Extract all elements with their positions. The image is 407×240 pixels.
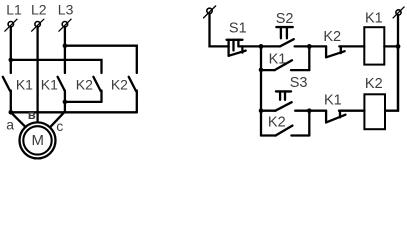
push button S1 (NC stop) [227,40,246,56]
node right rail dot [396,44,401,49]
terminal control left [204,6,216,18]
svg-text:K2: K2 [323,29,341,45]
svg-text:L2: L2 [31,2,47,18]
contact K1 pole 2 [58,77,65,112]
contact K2 aux self-hold [261,111,309,136]
svg-text:в: в [28,107,36,122]
svg-text:K1: K1 [41,76,58,92]
svg-text:K1: K1 [365,10,383,26]
svg-text:S2: S2 [276,11,294,27]
node junction dot phase a [9,110,14,115]
svg-text:L1: L1 [6,2,22,18]
wire join K1.2 K2.1 [65,101,102,103]
wire L3 branch to K2 contact 4 [65,46,137,73]
wire coil K2 to right rail [385,46,398,110]
wire to motor terminal c [50,112,65,128]
contact K1 aux self-hold [261,46,309,70]
svg-text:S3: S3 [290,75,308,91]
wire S3 rail [261,110,275,112]
svg-text:M: M [32,132,45,149]
wire S2 to node B [295,45,310,47]
wire node B to K2 NC [309,45,326,47]
node junction dot L3 [63,43,68,48]
terminal X3 (L3) [59,19,71,31]
wire S3 to rail dot [295,110,326,112]
contact K1 NC interlock [326,111,345,123]
push button S3 (NO start rev) [275,91,291,110]
wire right rail [397,15,399,111]
svg-text:L3: L3 [58,2,74,18]
wire coil K1 to right rail [384,45,398,47]
node B dot [307,44,312,49]
wire L1 branch to K2 contact 3 [11,60,102,73]
node dot S3 rail right [307,108,312,113]
wire to motor terminal a [11,112,26,127]
wire node A down [260,46,262,135]
terminal X2 (L2) [32,19,44,31]
contact K2 pole 1 [93,77,101,102]
node junction dot L1 [9,58,14,63]
svg-text:a: a [6,117,14,133]
svg-text:K2: K2 [111,76,128,92]
contact K2 pole 2 [129,77,137,113]
push button S2 (NO start fwd) [276,27,293,46]
terminal control right [393,7,404,18]
svg-text:S1: S1 [229,20,247,36]
wire L2 down [36,27,38,122]
motor M [20,122,56,158]
svg-text:K2: K2 [76,76,93,92]
coil K2 [364,94,385,129]
contact K1 pole 1 [3,77,11,113]
node junction dot phase c [63,100,68,105]
wire join K1.1 K2.2 [11,111,137,113]
wire control left down [210,14,229,47]
svg-text:K1: K1 [16,76,33,92]
wire S1 to node A [238,45,261,47]
node dot S3 rail left [259,108,264,113]
node dot K1 aux tap [259,68,264,73]
svg-text:c: c [56,118,63,134]
wire L1 down [10,27,12,73]
terminal X1 (L1) [5,19,17,31]
svg-text:K2: K2 [365,76,383,92]
wire L3 down [64,27,66,73]
node A dot [259,44,264,49]
wire K1 NC to coil K2 [339,110,364,112]
wire K2 NC to coil K1 [339,45,364,47]
contact K2 NC interlock [326,46,345,57]
wire node A to S2 [261,45,280,47]
svg-text:K1: K1 [324,93,342,109]
coil K1 [364,27,384,64]
svg-text:K2: K2 [268,114,286,130]
